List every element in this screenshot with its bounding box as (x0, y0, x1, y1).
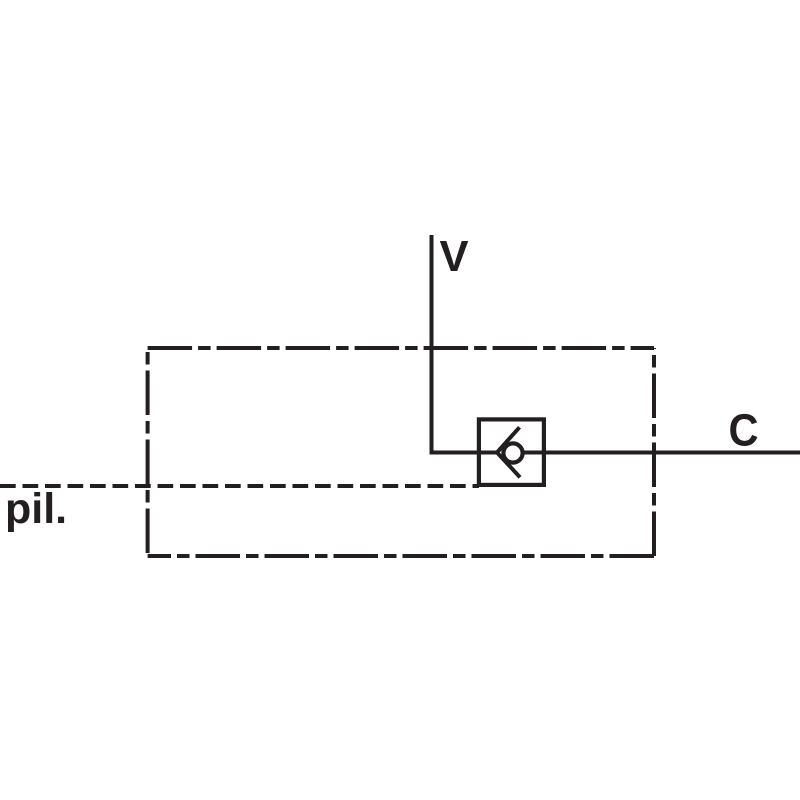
svg-text:pil.: pil. (5, 485, 67, 533)
svg-text:C: C (729, 405, 759, 456)
svg-text:V: V (440, 233, 469, 281)
